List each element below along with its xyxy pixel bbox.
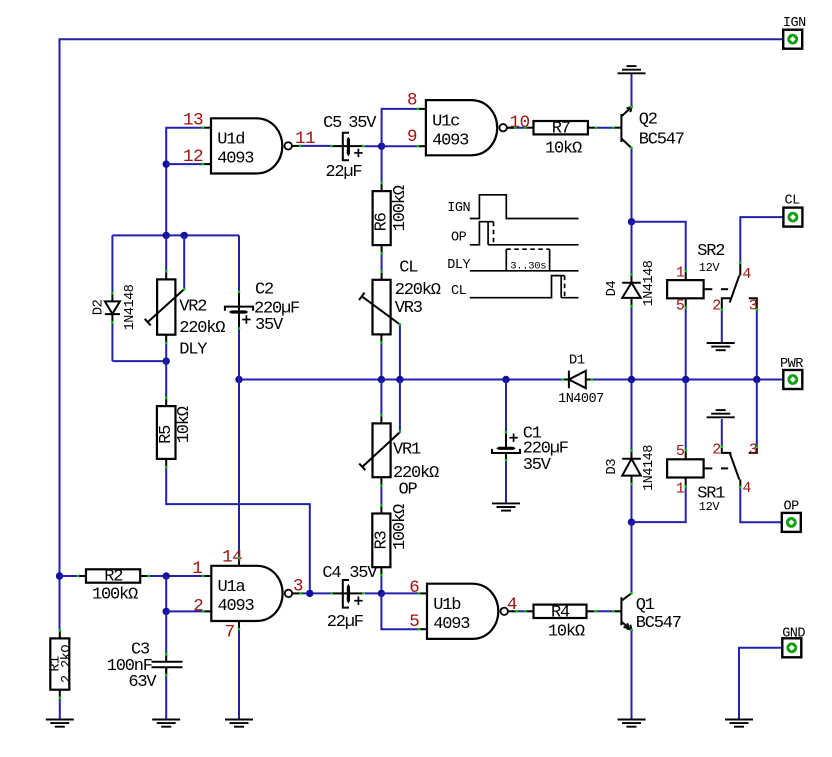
- svg-text:C5: C5: [323, 114, 342, 133]
- wire U1d pin12: [166, 163, 203, 165]
- wire D3 bottom to Q1 collector node: [631, 484, 633, 522]
- junction VR2 bottom / R5 node: [163, 357, 170, 364]
- svg-text:SR2: SR2: [697, 242, 724, 261]
- svg-text:1N4007: 1N4007: [558, 392, 604, 407]
- op-amp U1a (NAND 4093): [211, 566, 282, 621]
- wire U1a output to C4: [300, 592, 331, 594]
- svg-text:10kΩ: 10kΩ: [545, 140, 582, 159]
- svg-text:100kΩ: 100kΩ: [391, 504, 410, 550]
- wire Q1 emitter to ground: [631, 630, 633, 720]
- wire U1c pin8: [382, 109, 418, 146]
- diode D2 1N4148 (cathode down): [111, 293, 113, 301]
- wire C5 to junction: [365, 145, 382, 147]
- svg-text:2: 2: [712, 441, 721, 458]
- svg-text:3: 3: [749, 298, 758, 315]
- wire to SR2 coil pin1: [632, 222, 686, 271]
- diode D3 1N4148 (cathode up): [631, 451, 633, 459]
- svg-text:DLY: DLY: [447, 258, 470, 273]
- svg-text:OP: OP: [451, 230, 467, 245]
- wire U1b pin6: [381, 592, 419, 594]
- wire IGN net: pad to left edge and down to R1/R2: [60, 39, 784, 630]
- svg-text:5: 5: [676, 443, 685, 460]
- svg-text:IGN: IGN: [447, 201, 470, 216]
- svg-text:GND: GND: [782, 627, 805, 642]
- svg-text:35V: 35V: [255, 316, 284, 335]
- svg-text:DLY: DLY: [179, 341, 207, 360]
- wire DLY bottom rail: [112, 360, 166, 362]
- wire R7 to Q2 base: [596, 127, 614, 129]
- ground under U1a pin7: [225, 719, 253, 721]
- transistor Q2 BC547 (emitter up): [613, 127, 621, 129]
- svg-text:IGN: IGN: [783, 16, 806, 31]
- diode D1 1N4007 (cathode left): [563, 379, 569, 381]
- svg-text:VR3: VR3: [395, 299, 423, 318]
- op-amp U1d (NAND 4093): [211, 118, 282, 173]
- svg-text:35V: 35V: [349, 564, 378, 583]
- junction PWR/SR1 pin3: [753, 376, 760, 383]
- junction PWR/C2/U1a pin14: [235, 376, 242, 383]
- wire D4 top lead: [631, 222, 633, 275]
- svg-text:U1a: U1a: [218, 578, 246, 597]
- wire R3 bottom lead: [380, 575, 382, 593]
- wire VR1 top lead: [380, 380, 382, 416]
- wire R5 bottom to U1a output node: [166, 467, 310, 593]
- svg-text:1N4148: 1N4148: [642, 260, 657, 306]
- op-amp U1c (NAND 4093): [426, 100, 497, 155]
- wire VR2 bottom lead: [165, 343, 167, 361]
- wire VR1 bottom to R3 top: [380, 485, 382, 505]
- svg-text:U1b: U1b: [433, 596, 461, 615]
- svg-text:3: 3: [749, 441, 758, 458]
- wire R2 left: [60, 575, 79, 577]
- timing diagram CL trace: [470, 276, 565, 298]
- junction PWR/wipers: [396, 376, 403, 383]
- svg-text:1: 1: [676, 265, 685, 282]
- wire C2 top from DLY rail: [238, 235, 240, 292]
- svg-text:4093: 4093: [217, 150, 254, 169]
- svg-text:35V: 35V: [523, 456, 552, 475]
- ground under R1: [46, 719, 74, 721]
- capacitor C5 (polarized): [332, 145, 348, 147]
- svg-text:4: 4: [742, 266, 751, 283]
- svg-text:PWR: PWR: [780, 357, 803, 372]
- capacitor C2 (polarized): [238, 292, 240, 310]
- svg-text:10kΩ: 10kΩ: [548, 622, 585, 641]
- wire C1 bottom to ground: [505, 460, 507, 503]
- svg-text:U1c: U1c: [432, 113, 459, 132]
- wire R6 bottom to VR3 top: [381, 253, 383, 272]
- wire Q1 collector: [631, 522, 633, 593]
- svg-text:12: 12: [183, 147, 203, 167]
- svg-text:13: 13: [183, 111, 203, 131]
- wire SR1 switch pin3 to PWR bus: [756, 380, 758, 447]
- svg-text:CL: CL: [785, 194, 801, 209]
- svg-text:100kΩ: 100kΩ: [92, 586, 138, 605]
- trimmer VR2: [157, 279, 175, 334]
- svg-text:220kΩ: 220kΩ: [395, 281, 441, 300]
- wire U1c pin9: [382, 145, 418, 147]
- timing diagram DLY trace: [470, 270, 579, 272]
- svg-text:1N4148: 1N4148: [123, 284, 138, 330]
- svg-text:1: 1: [192, 559, 202, 579]
- junction D3/SR1 coil/Q1 collector: [628, 518, 635, 525]
- svg-text:D3: D3: [604, 459, 620, 475]
- svg-text:R7: R7: [552, 120, 570, 139]
- wire C1 top from PWR bus: [505, 380, 507, 433]
- junction PWR/C1: [502, 376, 509, 383]
- svg-text:4093: 4093: [433, 615, 470, 634]
- svg-text:2: 2: [712, 298, 721, 315]
- wire U1a pin2: [166, 610, 203, 612]
- trimmer VR1: [373, 423, 391, 477]
- relay switch SR1: [739, 480, 741, 487]
- svg-text:2: 2: [193, 596, 203, 616]
- svg-text:1: 1: [676, 481, 685, 498]
- timing diagram OP trace: [470, 222, 494, 245]
- svg-text:D1: D1: [569, 353, 585, 369]
- wire CL pad to SR2 switch pin4: [740, 217, 783, 263]
- ground of GND pad: [725, 719, 753, 721]
- svg-text:12V: 12V: [699, 500, 721, 514]
- resistor R2: [86, 569, 140, 582]
- wire SR2 coil pin5 to PWR bus: [685, 308, 687, 380]
- svg-text:4093: 4093: [218, 597, 255, 616]
- svg-text:3..30s: 3..30s: [510, 260, 546, 272]
- svg-text:10kΩ: 10kΩ: [175, 406, 194, 443]
- resistor R1: [50, 638, 69, 689]
- capacitor C3: [152, 661, 183, 663]
- svg-text:OP: OP: [399, 480, 418, 499]
- wire SR2 switch pin3 to PWR bus: [756, 310, 758, 380]
- junction U1d pin12 tie: [163, 160, 170, 167]
- svg-text:63V: 63V: [128, 673, 157, 692]
- resistor R3: [372, 514, 390, 568]
- terminal pad OP: [782, 513, 801, 532]
- svg-text:Q1: Q1: [636, 596, 655, 615]
- wire U1a pin14 from PWR bus: [238, 380, 240, 558]
- junction U1a pin1 node: [163, 572, 170, 579]
- resistor R5: [157, 406, 176, 459]
- junction PWR/D4-D3: [628, 376, 635, 383]
- transistor Q1 BC547 (emitter down): [613, 610, 621, 612]
- wire SR2 switch pin2 to ground: [721, 310, 723, 343]
- junction PWR/SR coils: [682, 376, 689, 383]
- wire SR1 switch pin2 to upper ground: [721, 419, 723, 447]
- junction IGN/R2: [56, 572, 63, 579]
- wire U1d pin13: [166, 128, 203, 236]
- junction C4/R3/U1b pins: [378, 590, 385, 597]
- svg-text:35V: 35V: [348, 114, 377, 133]
- wire U1b pin5 branch: [381, 593, 419, 629]
- capacitor C4 (polarized): [332, 592, 348, 594]
- wire GND pad to ground: [739, 648, 783, 720]
- svg-text:C2: C2: [255, 280, 273, 299]
- wire C2 bottom to PWR bus: [238, 328, 240, 379]
- wire VR2 wiper lead: [183, 235, 185, 289]
- terminal pad GND: [782, 638, 801, 657]
- relay coil SR1: [667, 459, 704, 477]
- wire DLY rail top: [112, 234, 239, 236]
- wire U1d output to C5: [300, 145, 332, 147]
- junction PWR/VR3-VR1: [378, 376, 385, 383]
- svg-text:7: 7: [225, 622, 235, 642]
- wire VR3 bottom to PWR bus: [380, 342, 382, 379]
- resistor R4: [534, 605, 587, 618]
- svg-text:6: 6: [409, 578, 419, 598]
- U1a pin7 stub: [238, 621, 240, 629]
- svg-text:4093: 4093: [432, 131, 469, 150]
- resistor R7: [534, 121, 588, 134]
- wire PWR bus left segment: [239, 379, 563, 381]
- wire U1a pin1-pin2 tie: [165, 576, 167, 611]
- wire VR1 wiper to PWR bus: [399, 380, 401, 432]
- junction C5/U1c node: [378, 143, 385, 150]
- wire PWR bus right segment: [592, 379, 784, 381]
- svg-text:VR1: VR1: [393, 441, 421, 460]
- svg-text:220kΩ: 220kΩ: [179, 319, 225, 338]
- svg-text:4: 4: [742, 480, 751, 497]
- relay switch SR2: [739, 263, 741, 276]
- pin connection points (green): [202, 127, 204, 129]
- terminal pad PWR: [783, 370, 802, 389]
- svg-text:2.2kΩ: 2.2kΩ: [60, 645, 75, 683]
- svg-text:D2: D2: [91, 300, 107, 316]
- svg-text:U1d: U1d: [217, 131, 244, 150]
- junction DLY rail / VR2 top: [163, 232, 170, 239]
- ground under SR2 switch pin2: [707, 342, 735, 344]
- terminal pad IGN: [783, 30, 802, 49]
- svg-text:22µF: 22µF: [325, 163, 361, 182]
- relay coil SR2: [667, 280, 704, 298]
- wire VR2 top lead: [165, 235, 167, 271]
- capacitor C1 (polarized): [505, 432, 507, 447]
- wire SR1 switch pin4 to OP pad: [740, 487, 783, 522]
- svg-text:CL: CL: [451, 284, 467, 299]
- wire U1c output to R7: [507, 127, 525, 129]
- wire R5 top lead: [165, 361, 167, 398]
- svg-text:C4: C4: [322, 564, 341, 583]
- svg-text:D4: D4: [604, 281, 620, 297]
- ground under Q1 emitter: [618, 719, 646, 721]
- wire Q2 emitter to top ground: [631, 74, 633, 108]
- wire C4 to pin6 junction: [365, 592, 382, 594]
- svg-text:R3: R3: [372, 531, 391, 550]
- svg-text:22µF: 22µF: [327, 613, 363, 632]
- op-amp U1b (NAND 4093): [427, 584, 498, 639]
- svg-text:10: 10: [510, 113, 530, 133]
- terminal pad CL: [783, 208, 802, 227]
- svg-text:R2: R2: [104, 568, 122, 587]
- ground under C3: [152, 719, 180, 721]
- svg-text:R6: R6: [373, 212, 392, 231]
- svg-text:5: 5: [676, 298, 685, 315]
- svg-text:CL: CL: [399, 259, 418, 278]
- junction U1a pin2/C3 node: [163, 608, 170, 615]
- svg-text:Q2: Q2: [639, 110, 657, 129]
- resistor R6: [373, 191, 391, 245]
- svg-text:11: 11: [295, 129, 315, 149]
- ground above Q2 emitter (flipped): [618, 72, 646, 74]
- diode D4 1N4148 (cathode up): [631, 275, 633, 283]
- junction U1a out / R5 branch: [306, 590, 313, 597]
- U1a pin14 stub: [238, 558, 240, 566]
- wire C3 bottom to ground: [165, 667, 167, 719]
- wire U1a pin7 to ground: [238, 629, 240, 719]
- wire D2 bottom lead: [111, 322, 113, 361]
- junction DLY rail / VR2 wiper: [181, 232, 188, 239]
- wire IGN net: R1 bottom to ground: [59, 698, 61, 720]
- wire SR1 coil pin5 to PWR bus: [685, 380, 687, 451]
- svg-text:100kΩ: 100kΩ: [391, 185, 410, 231]
- trimmer VR3: [373, 280, 391, 335]
- wire R6 top lead: [381, 146, 383, 183]
- wire R4 to Q1 base: [596, 610, 614, 612]
- svg-text:BC547: BC547: [639, 131, 684, 150]
- svg-text:1N4148: 1N4148: [642, 445, 657, 491]
- wire Q2 collector down: [631, 148, 633, 222]
- svg-text:12V: 12V: [699, 261, 721, 275]
- wire U1b output to R4: [512, 610, 525, 612]
- svg-text:8: 8: [407, 91, 417, 111]
- svg-text:R5: R5: [157, 425, 176, 444]
- wire C3 top: [165, 611, 167, 654]
- svg-text:OP: OP: [784, 499, 800, 514]
- timing diagram IGN trace: [470, 195, 579, 219]
- svg-text:9: 9: [407, 127, 417, 147]
- wire D2 top lead: [111, 235, 113, 293]
- svg-text:BC547: BC547: [636, 614, 681, 633]
- ground above SR1 switch pin2 (flipped): [707, 416, 735, 418]
- wire D4 bottom to PWR bus: [631, 306, 633, 380]
- wire R2 right to U1a pin1: [148, 575, 203, 577]
- wire VR3 wiper to PWR bus: [399, 325, 401, 380]
- svg-text:R4: R4: [551, 603, 570, 622]
- junction Q2 collector / D4 / SR2 coil: [628, 218, 635, 225]
- ground under C1: [492, 502, 520, 504]
- svg-text:VR2: VR2: [179, 298, 206, 317]
- wire SR1 coil pin1 rail: [632, 487, 686, 523]
- wire D3 top from PWR bus: [631, 380, 633, 451]
